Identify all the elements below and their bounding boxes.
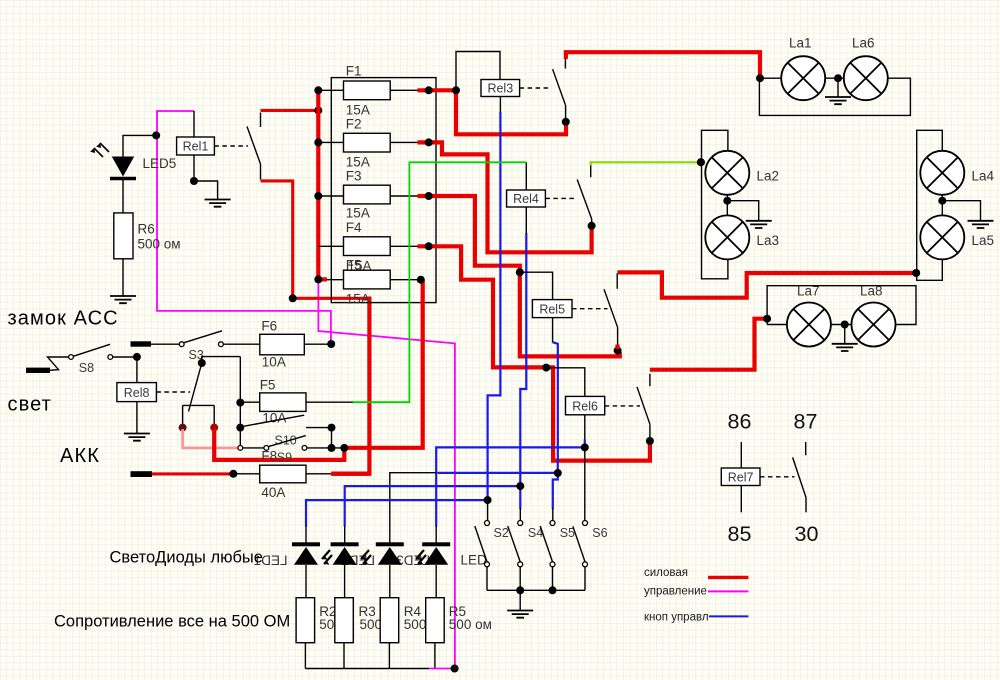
power wire: Rel1 switch bottom down to F8 output	[261, 181, 370, 298]
contact circle left	[179, 342, 184, 347]
wire: Rel6 coil top tap	[547, 368, 585, 397]
ground between La4/La5	[942, 201, 980, 221]
green control wire: F5 fuse to Rel4 coil	[352, 162, 526, 402]
resistor R2	[296, 598, 315, 643]
node: junction LED5/magenta	[152, 131, 160, 139]
node: S10 right	[328, 424, 336, 432]
lamp La8	[852, 303, 896, 347]
node: S3 common	[198, 359, 206, 367]
svg-text:Rel6: Rel6	[572, 400, 598, 414]
svg-text:15A: 15A	[346, 206, 370, 221]
node: S3 right throw	[210, 424, 218, 432]
node: Rel3 switch bottom	[562, 118, 570, 126]
dashed actuator link Rel6	[605, 405, 640, 407]
svg-text:La2: La2	[757, 169, 780, 184]
LED D2	[331, 542, 371, 565]
relay coil Rel8	[117, 383, 156, 402]
power wire: main fuse bus	[316, 88, 320, 279]
svg-text:S9: S9	[277, 451, 292, 465]
relay Rel7	[721, 468, 760, 486]
node: F5 input	[236, 399, 244, 407]
resistor R3	[335, 598, 354, 643]
power wire: Rel6 switch top to La7/La8	[650, 319, 765, 370]
wire: F3 output	[390, 195, 417, 197]
lamp La3	[705, 215, 749, 259]
svg-text:Rel8: Rel8	[124, 386, 150, 400]
svg-text:F2: F2	[346, 117, 362, 132]
node: Rel5 coil tap	[516, 268, 524, 276]
dashed actuator link Rel5	[572, 308, 608, 310]
node: rail S5	[549, 586, 557, 594]
node: rail magenta junction	[451, 665, 459, 673]
wire: bottom rail	[305, 668, 429, 670]
wire: R6 to ground	[122, 259, 124, 296]
fuse F3 15A	[344, 185, 391, 204]
node: La7 feed	[763, 315, 771, 323]
ground between La2/La3	[727, 201, 758, 221]
switch contact K3 (Rel3)	[553, 59, 566, 120]
wire: Rel3 coil top loop	[456, 52, 500, 88]
power wire: F4 output to Rel6	[418, 246, 650, 460]
node: F4 out	[425, 242, 433, 250]
wire: Rel8 bottom to ground	[136, 402, 138, 434]
power wire: F2 output to Rel4 switch	[418, 142, 592, 252]
power wire: F5 lower output down to S9 row	[346, 280, 423, 448]
blue button wire row: Rel3 to LED1	[306, 500, 488, 526]
svg-text:R6: R6	[138, 222, 155, 237]
node: bus / Rel1 switch	[314, 106, 322, 114]
wire: resistor bottoms to rail	[305, 643, 435, 669]
wire: bus to F2	[318, 141, 343, 143]
wire: La2/La3 bracket	[702, 130, 728, 278]
yellow-green wire: Rel4 switch top to La2	[591, 162, 701, 165]
switch contact K6 (Rel6)	[637, 374, 650, 439]
svg-text:30: 30	[795, 522, 819, 546]
wire: F2 output	[390, 141, 417, 143]
svg-text:F1: F1	[346, 64, 362, 79]
blue button wire row: Rel5 to LED3 (black part)	[390, 473, 438, 543]
lamp La7	[787, 303, 831, 347]
wire: LED5 anode tap to magenta node	[123, 135, 157, 156]
svg-text:управление: управление	[644, 585, 707, 597]
node: bus dot F5	[314, 275, 322, 283]
svg-text:силовая: силовая	[644, 567, 688, 579]
node: S10 left	[236, 424, 244, 432]
wire: into F8	[233, 473, 259, 475]
lamp La4	[920, 151, 964, 195]
node: S9 output red	[340, 444, 348, 452]
node: La1 feed	[756, 74, 764, 82]
wire: Rel4 coil top to green net	[525, 162, 527, 190]
blue button wire: Rel4 coil to S4	[525, 207, 527, 234]
fuse F5 10A	[260, 393, 306, 412]
lamp La6	[844, 56, 888, 100]
wire: F4 output	[390, 245, 417, 247]
node: La2 feed	[697, 158, 705, 166]
switch contact K1 (Rel1)	[247, 113, 261, 180]
wire: S8 to Rel8	[113, 356, 134, 358]
node: F3 out	[425, 192, 433, 200]
svg-text:S8: S8	[79, 361, 94, 375]
node: Rel5 blue junction	[554, 469, 562, 477]
svg-text:свет: свет	[8, 394, 52, 416]
svg-text:LED: LED	[461, 553, 488, 568]
dashed actuator link Rel1	[214, 145, 248, 147]
resistor R4	[380, 598, 399, 643]
wire and switch: замок ACC to F6	[151, 331, 260, 344]
wire: F6 output to magenta node	[304, 343, 328, 345]
node: F6 out / magenta	[327, 340, 335, 348]
switch S6	[573, 521, 588, 567]
wire: connector zigzag to S8	[48, 357, 69, 370]
ground under Rel8	[124, 434, 150, 441]
fuse F8 40A	[260, 465, 306, 483]
svg-text:замок АСС: замок АСС	[8, 308, 119, 330]
magenta control wire: замок ACC / F6 to Rel1 coil	[157, 111, 331, 342]
svg-text:S10: S10	[275, 434, 297, 448]
wire: Rel1 coil top	[193, 111, 195, 137]
node: Rel6 blue junction	[581, 443, 589, 451]
svg-text:15A: 15A	[346, 292, 370, 307]
fuse F6 10A	[260, 334, 305, 355]
relay coil Rel1	[177, 137, 215, 155]
blue button wire row: Rel4 to LED2	[345, 486, 521, 526]
dashed actuator link Rel4	[545, 197, 576, 199]
power wire: АКК to F8	[152, 472, 233, 475]
switch S8	[69, 344, 113, 359]
switch S3 common and blade	[189, 357, 241, 412]
wire: bus to F1	[318, 89, 343, 91]
switch S2	[475, 521, 490, 567]
blue button wire: Rel6 coil to S6 and LED4	[584, 415, 586, 440]
contact circle right	[219, 342, 224, 347]
svg-text:F6: F6	[261, 319, 277, 334]
relay coil Rel6	[566, 396, 605, 414]
node: between La2 and La3	[723, 197, 731, 205]
wire: bus to F3	[318, 195, 343, 197]
svg-text:Rel3: Rel3	[487, 82, 513, 96]
wire: Rel7 pin 86	[740, 442, 742, 468]
wire: S3 throw bracket	[183, 405, 215, 424]
power wire: Rel3 switch top to lamps La1/La6	[564, 52, 760, 78]
dashed actuator link Rel7	[760, 476, 795, 478]
magenta end of rail	[429, 668, 452, 670]
ground under switch rail	[519, 590, 521, 610]
fuse F4 15A	[344, 237, 391, 256]
svg-text:S5: S5	[560, 526, 575, 540]
wire: bus to F5 lower	[318, 277, 327, 281]
LED D4	[422, 542, 450, 565]
switch contact K7 (Rel7)	[793, 442, 806, 512]
svg-text:Rel1: Rel1	[183, 140, 209, 154]
resistor R5	[426, 598, 445, 643]
svg-text:F4: F4	[346, 220, 362, 235]
dashed actuator link Rel8	[156, 391, 190, 393]
svg-text:500: 500	[404, 617, 427, 632]
ground between La1/La6	[837, 78, 839, 97]
fuse block outline	[331, 78, 436, 303]
ground under Rel1	[205, 200, 231, 207]
wire: F5 output to green	[306, 401, 353, 403]
wire: stubs blue rows to S switches	[488, 500, 553, 520]
switch contact K5 (Rel5)	[604, 273, 618, 344]
relay coil Rel3	[481, 80, 520, 97]
svg-text:40A: 40A	[261, 485, 285, 500]
node: Rel5 switch bottom	[614, 347, 622, 355]
svg-text:F5: F5	[260, 378, 276, 393]
lamp La5	[920, 215, 964, 259]
svg-text:15A: 15A	[346, 155, 370, 170]
node: F5 lower out	[417, 276, 425, 284]
svg-text:АКК: АКК	[60, 445, 100, 467]
wire: La1/La6 row and return loop	[759, 78, 910, 115]
svg-text:500: 500	[360, 617, 383, 632]
svg-text:La5: La5	[972, 233, 995, 248]
node: corner junction x292	[289, 294, 297, 302]
node: Rel3 coil tap	[452, 86, 460, 94]
svg-text:Rel5: Rel5	[539, 303, 565, 317]
node: bus dot F3	[314, 192, 322, 200]
switch S4	[508, 521, 523, 567]
power wire: S3 right throw to S9 output	[214, 429, 344, 460]
wire: F1 output	[390, 89, 417, 91]
node: Rel4 switch bottom	[588, 222, 596, 230]
LED D3	[376, 542, 426, 565]
switch S5	[540, 521, 555, 567]
LED D5 symbol	[90, 143, 136, 179]
switch contact K4 (Rel4)	[577, 166, 592, 224]
wire: bus to F4	[318, 245, 343, 247]
magenta control wire: fuse bus tap down to LED resistor rail	[318, 281, 455, 669]
node: F1 out	[425, 86, 433, 94]
lamp La2	[705, 151, 749, 195]
svg-text:500 ом: 500 ом	[138, 237, 181, 252]
blue button wire row: Rel5 to LED3 (blue part)	[438, 472, 558, 474]
wire: Rel1 coil bottom to ground	[194, 155, 218, 200]
svg-text:F8: F8	[261, 449, 277, 464]
wire: switches to ground rail	[487, 567, 585, 591]
wire: S10 right down to S9	[331, 428, 333, 448]
svg-text:La6: La6	[852, 36, 875, 51]
ground between La7/La8	[844, 325, 846, 344]
lamp La1	[781, 56, 825, 100]
dashed actuator link Rel3	[520, 87, 551, 89]
relay coil Rel4	[507, 190, 546, 207]
svg-text:87: 87	[794, 410, 818, 434]
node: F2 out	[425, 138, 433, 146]
power wire: F1 output to Rel3	[418, 90, 567, 134]
connector bar АКК	[131, 471, 153, 477]
svg-text:15A: 15A	[346, 103, 370, 118]
node: Rel1 coil bottom	[190, 177, 198, 185]
svg-text:Сопротивление все на 500 ОМ: Сопротивление все на 500 ОМ	[54, 613, 290, 631]
svg-text:La3: La3	[757, 233, 780, 248]
svg-text:10A: 10A	[262, 355, 286, 370]
svg-text:кноп управл: кноп управл	[644, 611, 709, 623]
svg-text:85: 85	[728, 522, 752, 546]
wire: LED to resistor columns	[306, 565, 436, 598]
node: Rel6 coil tap	[542, 364, 550, 372]
node: Rel3 blue junction	[484, 496, 492, 504]
blue button wire: Rel5 coil to S5	[552, 318, 554, 343]
pink wire: S3 left throw to S9	[183, 429, 238, 448]
svg-text:La1: La1	[789, 36, 812, 51]
wire: Rel8 top	[136, 357, 138, 383]
node: S3 left throw	[179, 424, 187, 432]
svg-text:S2: S2	[494, 526, 509, 540]
power wire: F8 output red link	[331, 472, 369, 476]
svg-text:Rel4: Rel4	[513, 192, 539, 206]
wire: F5 input link	[240, 401, 259, 403]
power wire: F3 output to Rel5	[418, 196, 620, 356]
node: S8/Rel8	[133, 353, 141, 361]
wire: LED5 to R6	[122, 180, 124, 213]
svg-text:LED5: LED5	[143, 156, 177, 171]
node: between La1 and La6	[834, 74, 842, 82]
svg-text:СветоДиоды любые: СветоДиоды любые	[110, 549, 263, 567]
wire: LED column stubs	[306, 526, 436, 543]
wire: La4/La5 bracket	[917, 130, 943, 280]
node: S9 output black	[328, 444, 336, 452]
switch S9	[238, 436, 342, 451]
svg-text:10A: 10A	[262, 411, 286, 426]
fuse F1 15A	[344, 81, 391, 100]
svg-text:500 ом: 500 ом	[449, 617, 492, 632]
blue button wire: Rel3 coil to S2	[499, 97, 501, 114]
node: green tap on bracket	[697, 158, 705, 166]
svg-text:F3: F3	[346, 169, 362, 184]
resistor R6	[114, 213, 133, 259]
node: Rel6 switch bottom	[646, 437, 654, 445]
node: bus dot F2	[314, 138, 322, 146]
power wire: Rel1 switch top to fuse bus	[261, 109, 319, 112]
LED D1	[292, 542, 332, 565]
node: between La7 and La8	[841, 321, 849, 329]
connector bar замок ACC	[131, 341, 152, 346]
node: La4/La5 feed	[912, 269, 920, 277]
svg-text:86: 86	[728, 410, 752, 434]
wire: Rel7 pin 85	[740, 486, 742, 513]
wire: Rel5 coil top tap	[522, 272, 553, 299]
switch S10	[244, 415, 332, 427]
wire: La7/La8 bracket	[767, 286, 916, 325]
power wire: Rel5 switch top to La4/La5	[617, 272, 916, 297]
svg-text:Rel7: Rel7	[728, 471, 754, 485]
power wire: Rel5 switch stub to bottom node	[615, 345, 619, 350]
connector bar S8 feed	[26, 368, 50, 373]
node: bus dot F1	[314, 86, 322, 94]
ground under R6	[110, 296, 136, 303]
wire: F5 lower output	[390, 279, 417, 281]
wire: S3 common down to F5	[239, 357, 241, 446]
node: between La4 and La5	[938, 197, 946, 205]
node: rail S4	[516, 586, 524, 594]
svg-text:S6: S6	[592, 526, 607, 540]
node: АКК feed	[229, 470, 237, 478]
node: Rel4 blue junction	[516, 482, 524, 490]
fuse F2 15A	[344, 133, 391, 152]
wire: F8 output	[306, 473, 331, 475]
relay coil Rel5	[532, 300, 572, 318]
svg-text:La4: La4	[972, 169, 995, 184]
